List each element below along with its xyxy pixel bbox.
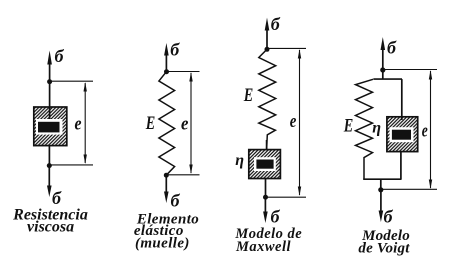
dimension line e (col4) xyxy=(429,70,432,189)
svg-text:η: η xyxy=(235,152,244,169)
dashpot D4 piston (black) xyxy=(392,130,411,140)
dashpot D1 piston (black) xyxy=(38,122,60,133)
wire: bottom extension tick (col3) xyxy=(266,196,307,198)
wire: rod dashpot to bottom node (col3) xyxy=(265,179,267,198)
wire: bottom extension tick (col2) xyxy=(166,174,199,176)
svg-text:б: б xyxy=(52,188,62,208)
svg-text:б: б xyxy=(171,190,181,210)
dimension line e (col1) xyxy=(84,82,87,164)
wire: bottom extension tick (col1) xyxy=(49,164,93,166)
wire: node to top connector (col4) xyxy=(382,70,384,79)
svg-text:б: б xyxy=(271,14,281,34)
node B4 bottom xyxy=(378,187,383,192)
svg-text:e: e xyxy=(181,113,189,134)
wire: dashpot rod top (col4, right branch) xyxy=(401,79,403,120)
wire: top extension tick (col4) xyxy=(383,69,437,71)
svg-text:б: б xyxy=(387,38,397,58)
stress arrow up sigma (col3) xyxy=(265,18,270,50)
stress arrow up sigma (col4) xyxy=(381,37,386,70)
svg-text:viscosa: viscosa xyxy=(27,219,74,236)
svg-text:(muelle): (muelle) xyxy=(135,236,190,252)
dimension line e (col3) xyxy=(298,49,301,196)
svg-text:б: б xyxy=(384,206,394,226)
node A3 top xyxy=(265,47,270,52)
svg-text:б: б xyxy=(271,206,281,226)
node B2 bottom xyxy=(164,173,169,178)
wire: dashpot rod bottom (col4) xyxy=(400,152,402,180)
node B3 bottom xyxy=(263,195,268,200)
svg-text:б: б xyxy=(170,40,180,60)
stress arrow down sigma (col4) xyxy=(379,190,384,222)
node A1 top xyxy=(47,79,52,84)
wire: rod from dashpot bottom to bottom node xyxy=(48,146,50,166)
dashpot D1 cylinder (hatched box) xyxy=(34,107,67,146)
spring E (col3) xyxy=(259,49,276,150)
stress arrow down sigma (col2) xyxy=(164,175,169,203)
svg-text:e: e xyxy=(290,111,297,132)
wire: top extension tick (col2) xyxy=(167,71,200,73)
wire: rod from top node into dashpot piston xyxy=(49,82,51,122)
spring E (col4, left branch) xyxy=(356,79,374,179)
spring E (col2) xyxy=(159,72,175,176)
node A4 top xyxy=(380,67,385,72)
dashpot D3 cylinder (hatched box) xyxy=(249,150,281,179)
wire: top extension tick (col3) xyxy=(267,47,306,49)
stress arrow up sigma (col2) xyxy=(164,43,169,72)
svg-text:б: б xyxy=(55,46,65,66)
svg-text:Maxwell: Maxwell xyxy=(235,239,291,255)
svg-text:E: E xyxy=(145,113,155,134)
dashpot D4 cylinder (hatched box) xyxy=(387,117,418,152)
stress arrow down sigma (col3) xyxy=(263,198,268,223)
wire: rod spring to dashpot (col3) xyxy=(266,140,268,150)
node A2 top xyxy=(164,69,169,74)
dimension line e (col2) xyxy=(189,72,192,174)
node B1 bottom xyxy=(47,163,52,168)
svg-text:e: e xyxy=(422,120,428,141)
svg-text:e: e xyxy=(75,114,82,135)
dashpot D3 piston (black) xyxy=(256,160,273,169)
svg-text:E: E xyxy=(343,116,353,137)
stress arrow down sigma (col1) xyxy=(47,166,52,197)
wire: bottom connector bar (col4) xyxy=(363,178,401,180)
svg-text:η: η xyxy=(372,120,381,137)
wire: top extension tick (col1) xyxy=(50,80,93,82)
svg-text:E: E xyxy=(243,85,253,106)
wire: top connector bar (col4) xyxy=(373,78,402,80)
stress arrow up sigma (col1) xyxy=(47,51,52,83)
wire: bottom extension tick (col4) xyxy=(381,188,437,190)
svg-text:de Voigt: de Voigt xyxy=(358,241,410,257)
wire: connector to bottom node (col4) xyxy=(380,179,382,190)
